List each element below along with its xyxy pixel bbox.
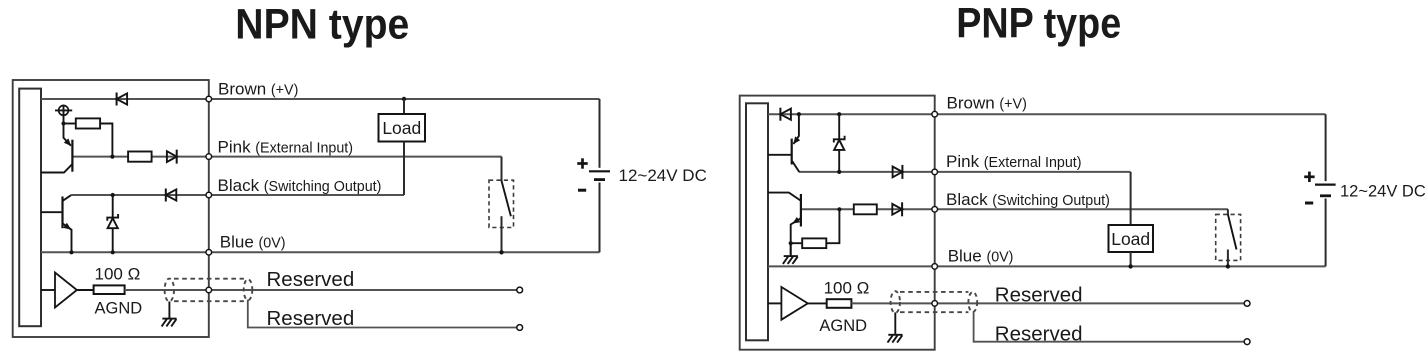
svg-text:Brown (+V): Brown (+V) xyxy=(218,80,298,99)
wire battery column (NPN) xyxy=(599,99,601,168)
battery B1 (NPN) xyxy=(589,170,610,172)
svg-text:Brown (+V): Brown (+V) xyxy=(947,93,1027,112)
terminal Blue (NPN) xyxy=(206,250,212,256)
label battery plus (PNP) xyxy=(1304,175,1314,178)
switch blade (PNP) xyxy=(1228,214,1237,249)
label battery minus (NPN) xyxy=(578,189,586,192)
diode D2 on Pink line (NPN) xyxy=(167,151,177,162)
resistor R2 on Black line (PNP) xyxy=(854,204,877,214)
wire Blue line (NPN) xyxy=(41,251,600,253)
wire pull-down to Black line (PNP) xyxy=(826,209,839,243)
svg-text:12~24V DC: 12~24V DC xyxy=(619,166,707,185)
node Z1 bottom on Blue line (NPN) xyxy=(111,250,115,254)
terminal end Reserved 2 (PNP) xyxy=(1244,339,1250,345)
node pull-down on Black line (PNP) xyxy=(837,207,841,211)
wire shield to ground (PNP) xyxy=(894,312,896,334)
svg-text:Load: Load xyxy=(382,118,421,138)
svg-text:Load: Load xyxy=(1111,229,1150,249)
cable shield left ellipse (PNP) xyxy=(891,291,900,313)
node zener on Pink line (PNP) xyxy=(837,170,841,174)
load box (NPN) xyxy=(379,114,426,142)
sensor element rectangle (PNP) xyxy=(746,103,768,340)
wire Reserved line 1 (PNP) xyxy=(851,302,1247,304)
wire Brown line (NPN) xyxy=(41,98,600,100)
op-amp buffer triangle (PNP) xyxy=(768,302,781,304)
terminal Blue (PNP) xyxy=(932,264,938,270)
svg-text:12~24V DC: 12~24V DC xyxy=(1340,182,1426,200)
svg-text:Black (Switching Output): Black (Switching Output) xyxy=(218,176,382,195)
svg-text:AGND: AGND xyxy=(95,300,143,318)
svg-text:100 Ω: 100 Ω xyxy=(95,265,141,284)
node Q2 emitter on Blue line (NPN) xyxy=(69,250,73,254)
diode D1 on Brown line (PNP) xyxy=(779,108,781,121)
transistor Q2 (NPN diagram, NPN device) xyxy=(61,197,63,229)
cable shield dashed lines (NPN) xyxy=(174,278,244,280)
svg-text:100 Ω: 100 Ω xyxy=(824,279,870,298)
sensor outer box (PNP) xyxy=(740,96,935,350)
wire Black to switch (PNP) xyxy=(1227,209,1229,214)
cable shield dashed lines (PNP) xyxy=(900,291,968,293)
node zener tap on Brown (PNP) xyxy=(837,112,841,116)
node pull-down resistor tap (PNP) xyxy=(789,241,793,245)
node switch on Blue line (NPN) xyxy=(499,250,503,254)
wire Load to Black line (NPN) xyxy=(403,142,405,196)
wire Black line (PNP) xyxy=(801,208,1228,210)
node R1 drop on base line (NPN) xyxy=(110,155,114,159)
wire Brown line (PNP) xyxy=(768,113,1326,115)
wire Reserved line 2 (PNP) xyxy=(974,312,1248,342)
transistor Q1 (NPN diagram, PNP device) xyxy=(71,140,73,172)
resistor R3 100 ohm (PNP) xyxy=(827,299,852,308)
switch dashed box (PNP) xyxy=(1216,214,1241,260)
diode D2 on Pink line (PNP) xyxy=(893,167,903,178)
diode D3 on Black line (PNP) xyxy=(892,204,902,215)
wire Black line (NPN) xyxy=(71,194,404,196)
wire amp to resistor R3 (PNP) xyxy=(808,302,827,304)
switch dashed box (NPN) xyxy=(489,180,514,227)
svg-text:NPN type: NPN type xyxy=(235,0,409,48)
ground shield (PNP) xyxy=(888,334,902,336)
wire Reserved line 1 (NPN) xyxy=(125,289,520,291)
wire lamp junction to resistor R1 (NPN) xyxy=(64,123,76,125)
svg-text:Pink (External Input): Pink (External Input) xyxy=(946,152,1082,171)
svg-text:Blue (0V): Blue (0V) xyxy=(220,232,286,251)
terminal end Reserved 1 (PNP) xyxy=(1244,301,1250,307)
wire Pink drop to Load (PNP) xyxy=(1130,172,1132,225)
cable shield left ellipse (NPN) xyxy=(165,279,174,302)
wire switch to Blue line (PNP) xyxy=(1227,250,1229,267)
node Q1 emitter tap on Brown (PNP) xyxy=(797,112,801,116)
wire Brown to Load (NPN) xyxy=(403,99,405,114)
transistor Q1 (PNP diagram, PNP device) xyxy=(791,139,793,165)
node Load tap on Brown (NPN) xyxy=(402,97,406,101)
zener diode Z1 (PNP) xyxy=(838,114,840,139)
load box (PNP) xyxy=(1109,225,1154,252)
svg-text:Reserved: Reserved xyxy=(267,268,355,291)
wire emitter to pull-down resistor (PNP) xyxy=(791,242,803,244)
svg-text:Reserved: Reserved xyxy=(995,284,1083,307)
wire Pink to switch (NPN) xyxy=(501,157,503,181)
terminal Brown (PNP) xyxy=(932,111,938,117)
diode D1 on Brown line (NPN) xyxy=(116,93,118,106)
wire amp to resistor R3 (NPN) xyxy=(77,289,94,291)
svg-text:PNP type: PNP type xyxy=(956,0,1121,48)
svg-text:Reserved: Reserved xyxy=(995,323,1083,346)
terminal end Reserved 2 (NPN) xyxy=(517,325,523,331)
resistor R1 (NPN) xyxy=(76,118,100,128)
resistor R3 100 ohm (NPN) xyxy=(94,285,125,294)
terminal Black (PNP) xyxy=(932,207,938,213)
wire R1 to Pink-row drop (NPN) xyxy=(100,124,112,157)
zener diode Z1 (NPN) xyxy=(112,195,114,218)
diode D3 on Black line (NPN) xyxy=(165,189,167,202)
wire shield to ground (NPN) xyxy=(168,301,170,318)
wire battery column (PNP) xyxy=(1325,114,1327,181)
switch blade (NPN) xyxy=(502,181,511,216)
terminal Brown (NPN) xyxy=(206,96,212,102)
terminal end Reserved 1 (NPN) xyxy=(517,287,523,293)
wire Pink line (PNP) xyxy=(799,171,1131,173)
wire Load to Blue line (PNP) xyxy=(1130,252,1132,266)
resistor R2 on Pink base line (NPN) xyxy=(128,152,152,162)
indicator lamp (NPN) xyxy=(63,105,65,124)
node Z1 top on Black line (NPN) xyxy=(111,193,115,197)
ground shield (NPN) xyxy=(162,318,176,320)
wire Pink line (NPN) xyxy=(72,156,501,158)
node Load on Blue line (PNP) xyxy=(1128,264,1132,268)
terminal Reserved (PNP) xyxy=(932,301,938,307)
battery B1 (PNP) xyxy=(1315,184,1336,186)
cable shield right ellipse (NPN) xyxy=(244,279,253,300)
terminal Reserved (NPN) xyxy=(206,287,212,293)
transistor Q2 (PNP diagram, NPN device) xyxy=(800,194,802,227)
node lamp junction (NPN) xyxy=(61,121,65,125)
sensor outer box (NPN) xyxy=(13,80,209,337)
cable shield right ellipse (PNP) xyxy=(968,292,977,312)
svg-text:Black (Switching Output): Black (Switching Output) xyxy=(946,190,1110,209)
node switch on Blue line (PNP) xyxy=(1226,264,1230,268)
svg-text:Blue (0V): Blue (0V) xyxy=(948,246,1014,265)
svg-text:AGND: AGND xyxy=(819,317,867,335)
ground Q2 emitter (PNP) xyxy=(790,243,792,256)
terminal Pink (PNP) xyxy=(932,169,938,175)
wire switch to Blue line (NPN) xyxy=(501,216,503,252)
label battery minus (PNP) xyxy=(1305,202,1313,205)
wire Reserved line 2 (NPN) xyxy=(248,300,520,328)
sensor element rectangle (NPN) xyxy=(19,89,41,327)
svg-text:Reserved: Reserved xyxy=(267,307,355,330)
op-amp buffer triangle (NPN) xyxy=(41,289,55,291)
terminal Pink (NPN) xyxy=(206,154,212,160)
terminal Black (NPN) xyxy=(206,192,212,198)
resistor R1 pull-down (PNP) xyxy=(802,238,826,248)
wire Blue line (PNP) xyxy=(768,265,1326,267)
label battery plus (NPN) xyxy=(577,162,587,165)
svg-text:Pink (External Input): Pink (External Input) xyxy=(218,138,354,157)
